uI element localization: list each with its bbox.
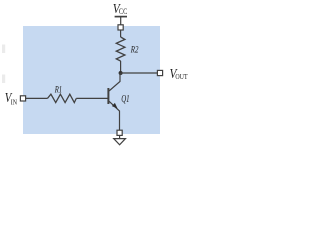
svg-text:R1: R1 bbox=[54, 85, 62, 95]
resistor R1 bbox=[48, 94, 77, 102]
svg-text:Q1: Q1 bbox=[121, 94, 129, 105]
svg-text:IN: IN bbox=[11, 97, 18, 106]
VCC power symbol bbox=[115, 17, 127, 25]
wire R1 to base of Q1 bbox=[76, 97, 108, 99]
collector lead bbox=[109, 73, 120, 91]
VCC label bbox=[113, 2, 128, 17]
svg-text:OUT: OUT bbox=[175, 72, 187, 81]
base bar bbox=[107, 88, 109, 104]
svg-text:CC: CC bbox=[119, 7, 127, 16]
svg-text:R2: R2 bbox=[130, 46, 139, 56]
VIN terminal bbox=[20, 96, 25, 101]
resistor R2 bbox=[116, 37, 125, 61]
wire VIN terminal to R1 bbox=[26, 97, 48, 99]
wire R2 to junction bbox=[120, 61, 122, 73]
blue panel background bbox=[23, 26, 160, 134]
wire VCC terminal to R2 bbox=[120, 30, 122, 37]
VOUT label bbox=[170, 67, 188, 82]
emitter arrowhead bbox=[112, 103, 118, 109]
emitter lead bbox=[109, 101, 120, 130]
VOUT terminal bbox=[157, 70, 162, 75]
transistor Q1 bbox=[108, 73, 120, 130]
ground terminal bbox=[117, 130, 122, 135]
ground symbol bbox=[114, 135, 126, 144]
VCC terminal bbox=[118, 25, 123, 30]
wire junction to VOUT terminal bbox=[121, 72, 158, 74]
VIN label bbox=[5, 90, 18, 106]
node junction dot bbox=[119, 71, 123, 75]
